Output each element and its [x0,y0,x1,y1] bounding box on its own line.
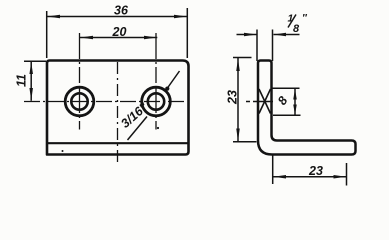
bend line [48,142,189,144]
dim 36 line [47,16,188,18]
hole H2 inner circle [148,93,164,109]
svg-text:23: 23 [226,90,240,105]
dim 11 line [30,62,32,101]
speck dot [62,150,64,152]
dim 8 extension line top [272,87,300,89]
dim 1/8 arrow right [274,33,287,37]
dim 20 arrow left [80,36,93,40]
dim 8 line [294,89,296,116]
dim 36 arrow left [47,15,60,19]
dim 23 left extension line top [233,57,252,59]
horizontal center line [24,101,184,103]
dim 1/8 arrow left [244,33,257,37]
dim 36 extension line left [46,11,48,58]
dim 23 bottom arrow right [334,175,347,179]
hole H1 outer circle [65,87,94,116]
dim 8 arrow bottom [293,105,297,115]
dim 23 left arrow top [236,58,240,71]
svg-text:23: 23 [308,164,323,178]
dim 11 extension line top [24,60,46,62]
dim 1/8 extension line right [272,30,274,62]
hole H2 outer circle [142,87,171,116]
side view center line [246,101,276,103]
dim 1/8 extension line left [256,30,258,62]
dim 23 bottom extension line right [346,163,348,186]
leader line 3/16 lower segment [128,117,148,141]
svg-text:11: 11 [15,74,29,87]
dim 11 arrow top [29,62,33,74]
label 1/8 inch [288,13,309,36]
hole H1 inner circle [71,93,87,109]
svg-text:36: 36 [114,4,129,18]
hole cross mark in side view [259,89,271,114]
dim 8 arrow top [293,89,297,100]
dim 23 bottom extension line left [272,155,274,184]
dim 36 arrow right [174,15,187,19]
vertical center line hole H2 [155,33,157,130]
dim 23 left line [237,58,239,142]
svg-text:20: 20 [112,25,127,39]
angle outline (side view) [258,61,356,155]
dim 1/8 line left [237,34,257,36]
plate outline (front view) [47,61,189,155]
speck dot [157,127,159,129]
dim 11 arrow bottom [29,88,33,101]
svg-text:8: 8 [293,23,300,35]
dim 23 bottom line [273,176,346,178]
dim 23 bottom arrow left [273,175,286,179]
dim 23 left extension line bottom [233,141,257,143]
dim 1/8 line right [274,34,300,36]
dim 36 extension line right [186,8,188,58]
dim 20 line [80,37,157,39]
dim 8 extension line bottom [273,114,301,116]
leader dot on hole rim [165,87,169,91]
vertical center line hole H1 [79,33,81,130]
mid vertical center line [117,62,119,164]
dim 23 left arrow bottom [236,129,240,142]
leader line 3/16 upper segment [168,71,180,88]
dim 20 arrow right [144,36,157,40]
